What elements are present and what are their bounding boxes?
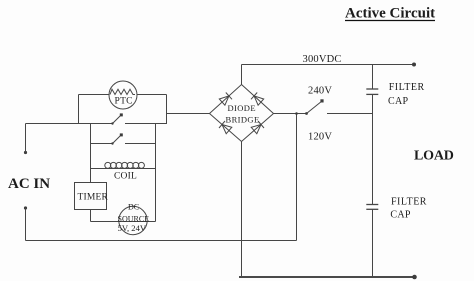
diode D4 (bottom-right arm) [251, 121, 264, 134]
wire cap rail top segment [372, 65, 374, 90]
node junction at 120V tap [295, 112, 298, 115]
wire coil-branch right vertical [155, 124, 157, 222]
wire cap rail bottom segment [372, 209, 374, 277]
svg-text:PTC: PTC [115, 96, 133, 106]
svg-text:CAP: CAP [390, 210, 410, 221]
svg-text:300VDC: 300VDC [303, 54, 342, 65]
diode D1 (top-left arm) [219, 93, 232, 106]
switch S2 [111, 133, 123, 144]
svg-text:FILTER: FILTER [389, 82, 425, 93]
inductor COIL [105, 162, 145, 181]
svg-text:FILTER: FILTER [391, 196, 427, 207]
svg-text:5V, 24V: 5V, 24V [118, 223, 147, 233]
svg-text:DIODE: DIODE [228, 103, 256, 113]
capacitor C1 (filter cap top) [366, 89, 378, 94]
label FILTER CAP (top) [388, 82, 425, 107]
wire bridge right to selector [274, 113, 307, 115]
wire cap rail mid segment [372, 94, 374, 204]
svg-text:240V: 240V [308, 86, 332, 97]
wire PTC branch right horizontal [137, 94, 167, 96]
label FILTER CAP (bottom) [390, 196, 427, 220]
wire timer bottom down [90, 210, 92, 222]
svg-text:TIMER: TIMER [78, 193, 109, 203]
wire after S1 to box right [125, 123, 167, 125]
wire PTC branch left horizontal [79, 94, 110, 96]
diode D2 (top-right arm) [251, 93, 264, 106]
node AC input terminal 1 (dot) [24, 151, 27, 154]
wire to diode bridge AC input 1 [167, 113, 210, 115]
wire bridge bottom down to bottom bus [241, 142, 243, 278]
diode bridge outline [210, 85, 274, 142]
wire timer to dc source to right vertical [91, 221, 156, 223]
wire 300VDC rail [242, 64, 415, 66]
switch S3 (voltage select) [305, 99, 324, 115]
svg-text:Active Circuit: Active Circuit [345, 6, 435, 22]
wire bridge top to 300VDC rail [241, 65, 243, 85]
svg-text:COIL: COIL [114, 171, 137, 181]
wire AC bottom horizontal [26, 240, 297, 242]
svg-text:LOAD: LOAD [414, 149, 454, 164]
svg-text:120V: 120V [308, 131, 332, 142]
wire bottom bus (return) [239, 276, 415, 278]
title Active Circuit [345, 6, 435, 22]
wire AC terminal 2 down [25, 208, 27, 241]
wire AC terminal 1 up [25, 124, 27, 153]
node 300VDC end terminal [412, 63, 416, 67]
svg-text:AC IN: AC IN [8, 176, 50, 192]
svg-text:DC: DC [128, 203, 139, 212]
node bottom bus end terminal [412, 275, 417, 280]
wire AC top horizontal to switch S1 [26, 123, 113, 125]
wire PTC branch right vertical [166, 95, 168, 125]
svg-text:BRIDGE: BRIDGE [226, 114, 260, 124]
dc source V1 (circle) [118, 203, 150, 235]
wire coil-branch left vertical [90, 124, 92, 169]
wire up to bridge AC input 2 [296, 114, 298, 241]
svg-text:CAP: CAP [388, 96, 408, 107]
capacitor C2 (filter cap bottom) [366, 205, 378, 210]
wire coil to timer [90, 169, 92, 183]
diode D3 (bottom-left arm) [219, 121, 232, 134]
resistor PTC (thermistor in circle) [109, 81, 137, 109]
wire coil baseline [91, 168, 156, 170]
switch S1 (bypass switch) [111, 113, 123, 124]
wire selector contact to cap rail [327, 113, 373, 115]
wire switch S2 line left [91, 143, 113, 145]
timer U1 [75, 183, 109, 210]
wire PTC branch left vertical [78, 95, 80, 124]
node AC input terminal 2 (dot) [24, 206, 27, 209]
wire switch S2 line right [125, 143, 156, 145]
